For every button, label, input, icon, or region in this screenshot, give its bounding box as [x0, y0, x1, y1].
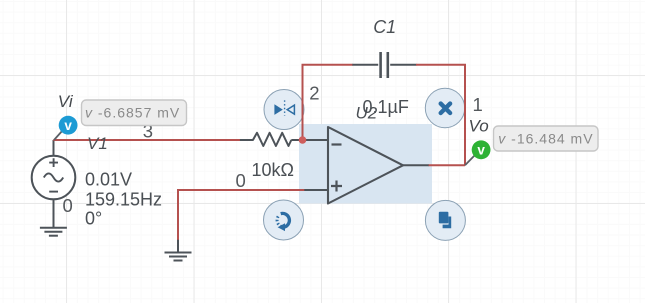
probe Vo [472, 140, 491, 159]
capacitor C1 body [352, 52, 416, 78]
selection highlight around op-amp U2 [299, 124, 432, 204]
wire feedback loop through C1 (net 2 to net 1) [303, 65, 353, 140]
op-amp non-inverting input lead [304, 189, 328, 191]
probe Vo leg [465, 155, 475, 165]
op-amp U2 triangle [328, 127, 403, 204]
button delete (X) [425, 88, 464, 127]
svg-text:0.01V: 0.01V [85, 169, 132, 189]
probe Vi [59, 116, 78, 135]
svg-text:Vo: Vo [469, 116, 489, 135]
ground (non-inverting input net) [165, 240, 192, 261]
button duplicate/copy [425, 200, 465, 240]
svg-text:v -6.6857 mV: v -6.6857 mV [85, 105, 180, 121]
probe Vi tooltip [82, 100, 187, 126]
wire V1 to R1 (net 3) [53, 139, 240, 141]
button flip/mirror [264, 90, 304, 130]
junction dot (R1 / feedback / op-amp input) [299, 136, 307, 144]
op-amp inverting input lead [291, 139, 328, 141]
svg-text:1: 1 [473, 94, 483, 115]
svg-text:v -16.484 mV: v -16.484 mV [498, 130, 593, 146]
wire op-amp output (net 1) [429, 164, 465, 166]
resistor R1 body [240, 133, 292, 146]
ground (below V1) [40, 228, 67, 236]
svg-text:0: 0 [63, 195, 73, 216]
svg-text:v: v [477, 143, 485, 158]
svg-text:0: 0 [236, 170, 246, 191]
probe Vo tooltip [494, 126, 599, 151]
wire ground to non-inverting input (net 0) [178, 190, 304, 240]
op-amp output lead [403, 164, 429, 166]
probe Vi leg [54, 130, 63, 140]
svg-text:10kΩ: 10kΩ [252, 160, 294, 180]
svg-text:2: 2 [309, 82, 319, 103]
wire C1 right to output [416, 65, 465, 166]
svg-text:U2: U2 [356, 103, 378, 122]
op-amp plus input marker [331, 181, 342, 192]
svg-text:v: v [64, 118, 72, 133]
svg-text:0°: 0° [85, 208, 102, 228]
svg-text:C1: C1 [373, 17, 396, 37]
op-amp minus input marker [332, 143, 342, 145]
svg-text:159.15Hz: 159.15Hz [85, 189, 162, 209]
svg-text:Vi: Vi [58, 92, 74, 111]
svg-text:V1: V1 [87, 134, 108, 153]
voltage source V1 [32, 140, 76, 228]
button rotate [264, 200, 304, 240]
